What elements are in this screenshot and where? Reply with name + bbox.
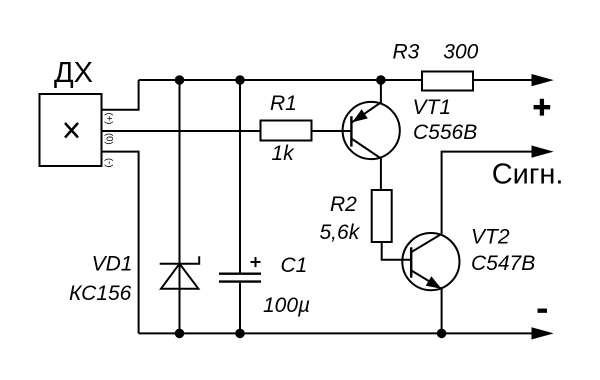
svg-text:(-): (-)	[104, 158, 115, 168]
svg-text:300: 300	[443, 40, 478, 63]
svg-text:R3: R3	[393, 40, 420, 63]
svg-text:1k: 1k	[272, 142, 296, 165]
svg-text:Сигн.: Сигн.	[492, 159, 564, 191]
svg-text:R2: R2	[330, 193, 357, 216]
svg-text:(+): (+)	[104, 113, 115, 125]
svg-text:R1: R1	[270, 92, 297, 115]
svg-text:ДХ: ДХ	[54, 57, 93, 89]
svg-text:5,6k: 5,6k	[320, 221, 361, 244]
svg-text:C556B: C556B	[413, 121, 477, 144]
svg-text:C547B: C547B	[471, 252, 535, 275]
svg-text:C1: C1	[281, 254, 308, 277]
svg-text:VT2: VT2	[471, 226, 510, 249]
svg-text:VT1: VT1	[413, 96, 452, 119]
svg-text:КС156: КС156	[69, 282, 132, 305]
svg-text:VD1: VD1	[92, 253, 133, 276]
svg-text:100µ: 100µ	[263, 294, 310, 317]
svg-text:(0): (0)	[104, 133, 115, 145]
